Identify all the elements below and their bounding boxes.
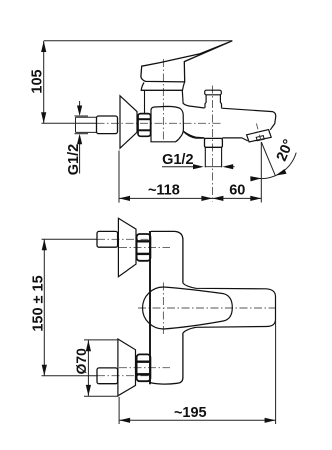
cartridge housing (side view) [151, 106, 183, 141]
upper wall nipple (top view) [97, 231, 118, 247]
shower outlet flange (side view) [205, 138, 223, 147]
svg-text:~118: ~118 [148, 183, 180, 199]
svg-text:Ø70: Ø70 [74, 348, 89, 374]
svg-text:~195: ~195 [174, 405, 207, 421]
faucet body (top view) [151, 231, 183, 384]
dim ~195 right extension [275, 321, 277, 425]
body bottom edge between housing and flange [183, 131, 204, 138]
upper hex nut (top view) [137, 234, 151, 261]
knob vertical axis dash-dot [162, 283, 164, 336]
G1/2 dim line across pipe [205, 166, 221, 168]
hex nut (side view) [138, 114, 151, 137]
svg-text:60: 60 [229, 183, 245, 199]
dim 150 bottom arrow [42, 365, 47, 376]
diverter knob cap (side view) [205, 90, 222, 95]
handle lever (side view) [141, 41, 232, 82]
svg-text:105: 105 [30, 69, 46, 93]
dimension 105 top arrow [41, 41, 46, 52]
dim ~118 / 60 dimension line [119, 197, 261, 199]
G1/2 wall nipple body (side view) [97, 116, 118, 134]
lower inlet axis dash-dot [119, 367, 170, 369]
dim Ø70 dimension line [87, 340, 89, 396]
aerator housing (side view, tilted) [247, 130, 272, 142]
handle skirt (side view) [141, 82, 184, 90]
upper inlet axis dash-dot [119, 246, 170, 248]
body back edge (wall line, top view) [149, 231, 151, 384]
Ø70 ticks [84, 339, 119, 341]
dim 150±15 dimension line [43, 239, 45, 375]
20 degree vertical leg / 60 extension [260, 142, 262, 203]
extension line at main axis (left) [42, 122, 97, 124]
upper escutcheon (top view) [118, 218, 136, 276]
lower wall nipple (top view) [97, 368, 118, 384]
lower nipple axis dash-dot [97, 375, 150, 377]
cartridge vertical axis (side view) dash-dot [162, 59, 164, 141]
dim ~195 arrows [119, 418, 130, 423]
escutcheon cone (side view) [120, 96, 137, 148]
spout underside slope [242, 138, 248, 141]
main horizontal axis (side view) dash-dot [97, 122, 223, 124]
svg-text:G1/2: G1/2 [162, 152, 193, 168]
G1/2 dimension arrows (left, vertical) [75, 101, 89, 174]
handle knob arc (top view) [143, 287, 164, 329]
20 degree angled leg [261, 142, 275, 176]
upper nipple axis extension (solid) [42, 238, 98, 240]
aerator axis dash-dot (tilted) [256, 124, 261, 142]
shower outlet pipe (side view) [205, 147, 221, 167]
skirt bottom line [141, 89, 182, 91]
arc arrowhead at vertical leg [250, 176, 261, 181]
neck left edge (side view) [144, 90, 146, 113]
upper nipple axis dash-dot [97, 238, 150, 240]
dim ~195 left extension [118, 397, 120, 424]
G1/2 wall nipple thread stub (side view) [76, 117, 97, 132]
extension line top (to handle tip) [44, 40, 233, 42]
lower escutcheon (top view) [118, 339, 136, 396]
svg-text:G1/2: G1/2 [66, 144, 82, 175]
diverter knob body (side view) [205, 95, 222, 108]
dimension 105 bottom arrow [41, 112, 46, 123]
svg-text:150 ± 15: 150 ± 15 [31, 275, 47, 331]
handle blade (top view) [164, 287, 233, 329]
lower hex nut (top view) [137, 354, 151, 381]
dim ~118 arrows [119, 196, 130, 201]
dim ~118 extension line (wall plane) [118, 151, 120, 203]
dim 60 arrows [212, 196, 223, 201]
faucet body arm + spout outline (side view) [182, 90, 275, 138]
shower outlet vertical axis (side view) dash-dot [212, 86, 214, 203]
spout capsule (top view) [183, 283, 276, 333]
main axis (top view) dash-dot [138, 307, 275, 309]
G1/2 leader underline + arrow left [162, 166, 201, 168]
aerator insert small rect [256, 136, 264, 141]
Ø70 top arrow [86, 340, 91, 351]
G1/2 leader arrow right [225, 166, 235, 168]
lower nipple axis extension (solid) [42, 375, 98, 377]
arc arrowhead at angled leg [275, 169, 286, 176]
dim ~195 dimension line [119, 419, 276, 421]
dimension 105 vertical line [43, 41, 45, 123]
dim 150 top arrow [42, 239, 47, 250]
20 degree arc [251, 153, 296, 179]
Ø70 bottom arrow [86, 385, 91, 396]
